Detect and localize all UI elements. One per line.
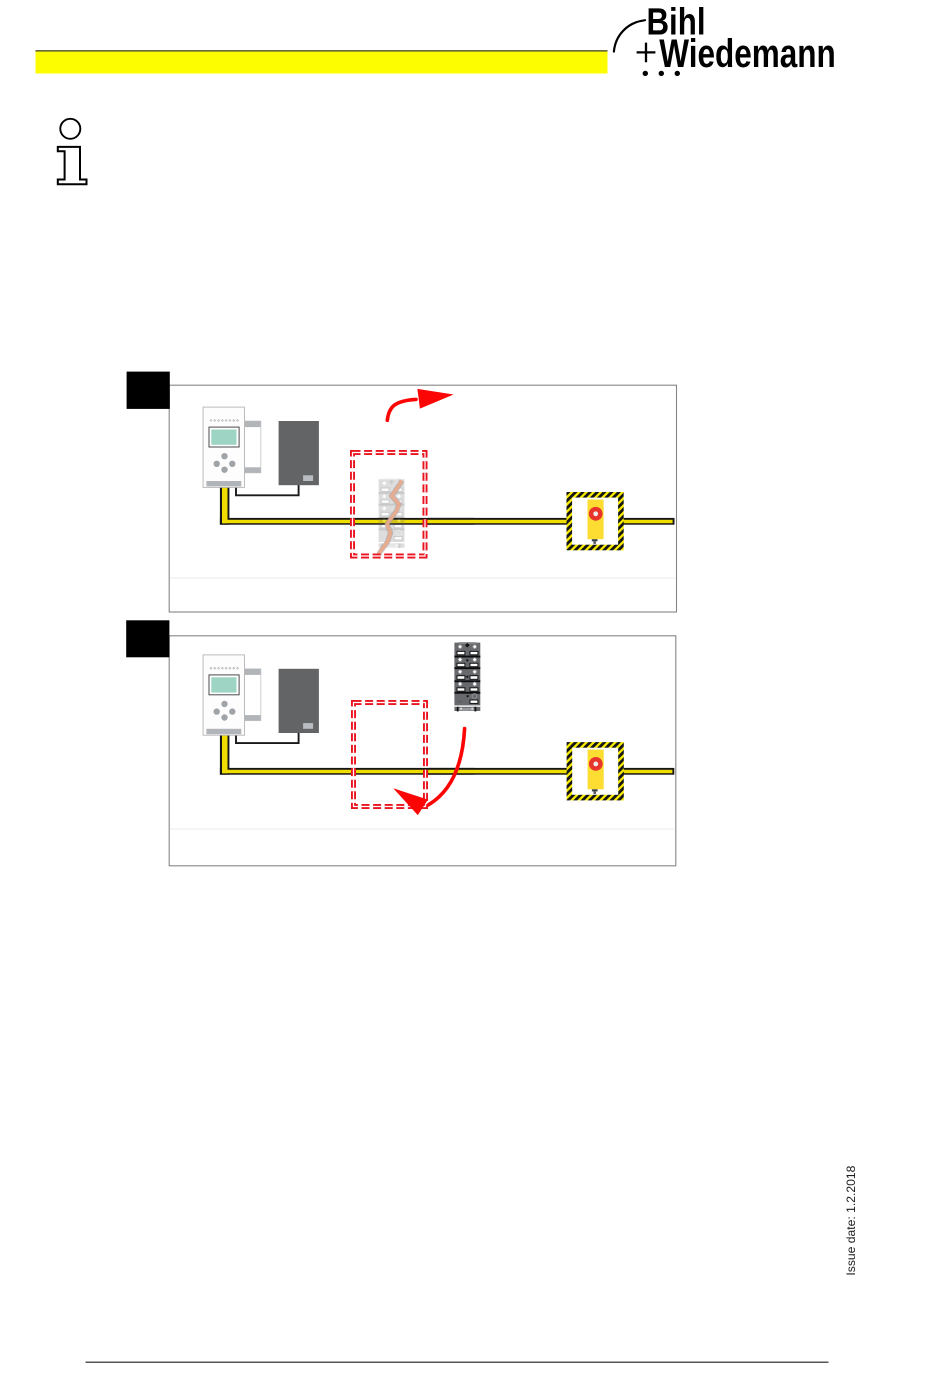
- logo plus sign: [637, 43, 656, 63]
- gateway + power supply fig2: [203, 655, 319, 735]
- safety module fig2: [454, 642, 480, 711]
- figure 1 separator: [170, 577, 676, 579]
- dashed insertion frame fig2: [354, 703, 426, 807]
- figure 2 number plate: [126, 620, 169, 657]
- black power wire fig2: [236, 733, 299, 743]
- figure 2 frame: [169, 636, 676, 866]
- cable fig1 right of dashed box: [428, 518, 675, 525]
- logo dots: [643, 71, 648, 76]
- info icon: [60, 119, 80, 139]
- red arrow fig1: [387, 399, 416, 420]
- emergency stop fig2: [567, 742, 624, 800]
- logo arc: [614, 20, 645, 51]
- figure 1 number plate: [127, 372, 170, 409]
- black power wire fig1: [236, 485, 299, 495]
- yellow header bar: [36, 50, 608, 51]
- ghost module fig1: [379, 479, 405, 548]
- figure 2 separator: [170, 828, 675, 830]
- dashed removal frame fig1: [353, 453, 426, 557]
- red arrow fig2: [429, 729, 465, 805]
- svg-text:Wiedemann: Wiedemann: [659, 32, 836, 76]
- svg-text:Issue date: 1.2.2018: Issue date: 1.2.2018: [844, 1165, 858, 1275]
- ghost cable squiggle: [378, 481, 403, 559]
- yellow AS-i cable fig1: [220, 487, 230, 525]
- emergency stop fig1: [567, 492, 624, 550]
- yellow AS-i cable fig2: [220, 735, 230, 775]
- gateway + power supply fig1: [203, 407, 319, 487]
- footer rule: [86, 1361, 829, 1363]
- figure 1 frame: [169, 385, 676, 612]
